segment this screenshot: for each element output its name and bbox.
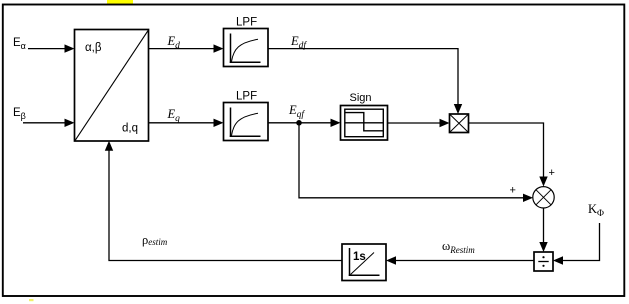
transform block alpha-beta to d-q xyxy=(75,30,149,142)
integrator block 1s xyxy=(342,244,386,281)
svg-text:d,q: d,q xyxy=(122,123,138,135)
wire E_q xyxy=(149,119,224,127)
wire E_d xyxy=(149,44,224,52)
wire E_beta input xyxy=(23,119,75,127)
highlight mark top xyxy=(107,0,133,5)
svg-text:α,β: α,β xyxy=(85,42,102,54)
wire integrator feedback to transform block xyxy=(105,141,342,261)
Sign block xyxy=(341,92,388,140)
wire multiplier to summer xyxy=(469,123,548,187)
wire divider to integrator xyxy=(386,256,534,264)
svg-text:1s: 1s xyxy=(353,251,366,263)
wire E_df to multiplier xyxy=(268,49,462,114)
divider block xyxy=(534,252,553,271)
wire K_phi to divider xyxy=(553,223,600,265)
wire E_qf feedback to summer xyxy=(299,123,533,202)
wire E_alpha input xyxy=(28,44,75,52)
svg-text:LPF: LPF xyxy=(236,91,257,103)
LPF block 1 xyxy=(224,17,269,67)
wire summer to divider xyxy=(539,208,547,252)
highlight mark bottom-left xyxy=(29,299,34,301)
svg-text:Sign: Sign xyxy=(350,92,372,104)
wire Sign to multiplier xyxy=(388,119,450,127)
svg-text:LPF: LPF xyxy=(236,17,257,29)
svg-text:+: + xyxy=(510,185,516,197)
wire E_qf to Sign xyxy=(268,119,341,127)
multiplier X1 xyxy=(450,114,469,133)
summer S1 xyxy=(533,187,554,208)
svg-text:+: + xyxy=(549,167,555,179)
junction E_qf xyxy=(296,120,302,126)
LPF block 2 xyxy=(224,91,269,141)
